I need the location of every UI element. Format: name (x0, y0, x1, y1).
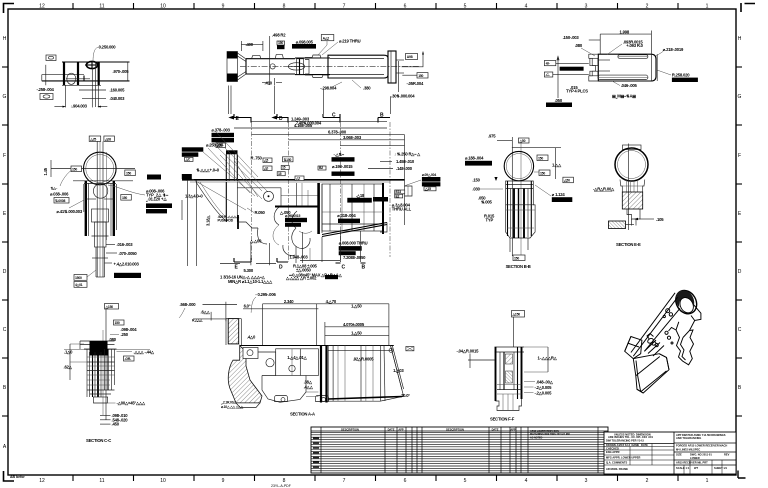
svg-text:C: C (3, 327, 7, 333)
svg-text:23YL-A-PDF: 23YL-A-PDF (271, 484, 291, 488)
svg-text:⌀.09△.004: ⌀.09△.004 (422, 173, 436, 177)
main outline (598, 54, 656, 81)
svg-text:⌀.098.0015: ⌀.098.0015 (285, 214, 300, 218)
svg-text:-△00△×45°△△△: -△00△×45°△△△ (117, 401, 147, 406)
svg-text:AB befor: AB befor (10, 475, 25, 479)
buffer thread hatched bar (228, 319, 239, 344)
ejection port detail (297, 59, 304, 75)
svg-text:△25: △25 (89, 137, 96, 141)
corner mark bottom-left (4, 471, 15, 481)
svg-text:.410: .410 (265, 81, 273, 86)
grid letters right (738, 36, 742, 391)
grid letters left (3, 36, 7, 450)
grip / trigger guard (676, 322, 694, 365)
bold pocket top edge (275, 206, 319, 208)
svg-text:SECTION F-F: SECTION F-F (490, 417, 515, 422)
svg-text:△08: △08 (104, 137, 111, 141)
svg-text:1-.△△△R△: 1-.△△△R△ (538, 356, 558, 361)
svg-text:2: 2 (646, 4, 649, 10)
svg-text:D: D (279, 265, 283, 271)
bottom dims (269, 74, 271, 85)
top cap (623, 145, 642, 150)
svg-text:9: 9 (222, 478, 225, 484)
svg-text:150: 150 (126, 171, 131, 175)
view: top-center receiver side elevation (227, 32, 428, 98)
.105 dim (640, 218, 654, 220)
ring (615, 148, 648, 181)
hatched block (622, 192, 642, 209)
svg-text:.030: .030 (472, 187, 480, 192)
svg-text:1.△△: 1.△△ (552, 163, 562, 168)
svg-text:⌀.008.000 THRU: ⌀.008.000 THRU (339, 240, 368, 245)
svg-text:10: 10 (160, 4, 166, 10)
svg-text:.1△0: .1△0 (64, 350, 73, 355)
horizontals (87, 356, 115, 358)
svg-text:1500: 1500 (75, 276, 82, 280)
svg-text:-.258-.004: -.258-.004 (37, 87, 55, 92)
corner mark bottom-right (738, 471, 746, 479)
top dim lines (263, 303, 389, 305)
small white boxes center (283, 157, 294, 162)
svg-text:.568-.000: .568-.000 (180, 302, 197, 307)
svg-text:- 0.295-.006: - 0.295-.006 (255, 292, 276, 297)
small latch bumps (647, 334, 654, 340)
gdt box (46, 55, 56, 61)
buffer ring outer (84, 152, 117, 185)
svg-text:APP: APP (510, 427, 516, 431)
leader top (60, 170, 72, 186)
svg-text:⇅150: ⇅150 (284, 158, 292, 162)
svg-text:.250: .250 (121, 332, 129, 337)
svg-text:150: 150 (72, 167, 77, 171)
svg-text:-.298.004: -.298.004 (320, 86, 337, 91)
vertical lines through (96, 141, 98, 277)
svg-text:1.△50: 1.△50 (351, 331, 362, 336)
svg-text:SIZE: SIZE (676, 452, 682, 456)
top dim .400 (241, 41, 263, 51)
svg-text:F: F (3, 153, 6, 159)
svg-text:△5: △5 (263, 159, 268, 163)
right dim (555, 148, 557, 179)
svg-text:△15: △15 (424, 187, 431, 191)
svg-text:AS NOTED: AS NOTED (530, 436, 543, 439)
svg-text:+.093 R.0: +.093 R.0 (626, 43, 643, 48)
view: SECTION B-B (mid-right) (465, 134, 573, 270)
view: isometric lower receiver (625, 287, 701, 393)
trigger guard bottom (262, 376, 306, 403)
inner lines (598, 59, 610, 61)
svg-text:⌀.198-.0015: ⌀.198-.0015 (332, 164, 353, 169)
view: SECTION F-F (bottom right-center) (457, 311, 558, 422)
right labels (121, 195, 132, 201)
left grip outline + hatch (228, 346, 262, 403)
svg-text:.△△△ -.44△: .△△△ -.44△ (133, 350, 154, 355)
svg-text:7: 7 (343, 4, 346, 10)
svg-text:.160.005: .160.005 (110, 88, 126, 93)
svg-text:C: C (342, 265, 346, 271)
svg-text:.105: .105 (656, 217, 664, 222)
rail bumps (252, 56, 261, 59)
lower steps (627, 209, 640, 219)
receiver deck steps (237, 222, 258, 228)
right block (317, 183, 320, 234)
centerline down (91, 62, 93, 108)
dim .160 (79, 89, 106, 91)
bottom dims (295, 246, 297, 263)
svg-text:-.05R.004: -.05R.004 (407, 81, 424, 86)
svg-text:SECTION A-A: SECTION A-A (290, 411, 315, 416)
svg-text:2: 2 (646, 478, 649, 484)
svg-text:0.250.000: 0.250.000 (99, 45, 117, 50)
svg-text:12: 12 (39, 4, 45, 10)
inner body boxes (92, 209, 109, 222)
main top rail (182, 179, 405, 181)
svg-text:⌀.10△ △△ △△△: ⌀.10△ △△ △△△ (221, 405, 243, 409)
svg-text:4: 4 (525, 478, 528, 484)
svg-text:5: 5 (464, 478, 467, 484)
right dim .970 (127, 62, 129, 81)
svg-text:150: 150 (540, 171, 545, 175)
section cut dashed verticals (251, 122, 253, 262)
svg-text:.148-.000: .148-.000 (396, 166, 413, 171)
svg-text:SECTION B-B: SECTION B-B (506, 264, 531, 269)
svg-text:4.△70: 4.△70 (326, 299, 337, 304)
centerline (240, 65, 420, 67)
main deck line (240, 345, 394, 347)
svg-text:CHECKED: CHECKED (606, 446, 619, 450)
svg-text:F: F (738, 153, 741, 159)
right small dim (656, 54, 658, 81)
mid dim lines (325, 326, 389, 328)
svg-text:5.300: 5.300 (244, 268, 254, 273)
svg-text:.975: .975 (488, 134, 496, 139)
bottom label (513, 255, 525, 261)
svg-text:A△2: A△2 (323, 36, 330, 40)
svg-text:⇅.△△△+.0⎯0: ⇅.△△△+.0⎯0 (196, 168, 220, 173)
connector ext lines from top view to cut markers (228, 86, 230, 115)
left dims (69, 344, 71, 380)
svg-text:.92△R.0005: .92△R.0005 (353, 357, 374, 362)
svg-text:1: 1 (706, 478, 709, 484)
svg-text:4.070±.0005: 4.070±.0005 (343, 322, 365, 327)
svg-text:△C: △C (185, 158, 191, 162)
mid step outline (305, 55, 328, 58)
svg-text:SECTION C-C: SECTION C-C (86, 438, 111, 443)
svg-text:-△R△R.00△: -△R△R.00△ (593, 187, 615, 192)
svg-text:AND TOLERANCING: AND TOLERANCING (676, 436, 701, 440)
svg-text:⌀.038-.006: ⌀.038-.006 (50, 192, 69, 197)
svg-text:DATE: DATE (388, 427, 395, 431)
thick bars (63, 62, 65, 85)
svg-text:FORGED AR15 LOWER RECEIVER MAC: FORGED AR15 LOWER RECEIVER MACH (676, 443, 727, 447)
svg-text:SCALE 1:1: SCALE 1:1 (676, 466, 690, 470)
svg-text:⌀.219 THRU: ⌀.219 THRU (339, 39, 361, 44)
svg-text:⌀.41⇅.000.003: ⌀.41⇅.000.003 (57, 209, 83, 214)
svg-text:10: 10 (160, 478, 166, 484)
svg-text:APP: APP (398, 427, 404, 431)
front cap / pivot lug (625, 337, 642, 359)
EOE datum box (182, 174, 192, 179)
svg-text:150: 150 (278, 41, 283, 45)
left dim line (45, 65, 47, 86)
svg-text:△.△00: △.△00 (249, 239, 262, 244)
dim 1.904 bottom (54, 106, 65, 108)
svg-text:LOWER: LOWER (690, 456, 700, 460)
grid ticks top (73, 3, 678, 9)
svg-text:B: B (380, 113, 384, 119)
svg-text:-.2△0.005: -.2△0.005 (535, 385, 553, 390)
svg-text:.070-.0050: .070-.0050 (119, 251, 138, 256)
svg-text:DATE: DATE (641, 443, 648, 447)
pivot pin cylinder (647, 337, 654, 344)
svg-text:3: 3 (585, 4, 588, 10)
buffer ring circle (504, 151, 533, 180)
svg-text:1.249-.003: 1.249-.003 (291, 116, 310, 121)
svg-text:4△01: 4△01 (75, 283, 83, 287)
svg-text:1.△4△.01△: 1.△4△.01△ (287, 355, 307, 360)
svg-text:DWG. NO 2011-01: DWG. NO 2011-01 (690, 452, 712, 456)
svg-text:.△18: .△18 (356, 193, 365, 198)
svg-text:A98: A98 (407, 55, 413, 59)
leader 0.250 (93, 47, 99, 62)
svg-text:12: 12 (39, 478, 45, 484)
grid ticks bottom (73, 475, 678, 481)
svg-text:M4 LINES MILSPEC: M4 LINES MILSPEC (676, 447, 700, 451)
svg-text:1.3△4.0⎯0: 1.3△4.0⎯0 (185, 194, 203, 199)
svg-text:B2: B2 (319, 166, 323, 170)
svg-text:DRAWN J.MCF 8.14: DRAWN J.MCF 8.14 (606, 443, 631, 447)
bottom slot (598, 75, 648, 79)
svg-text:⌀.378-.003: ⌀.378-.003 (212, 128, 231, 133)
svg-text:11: 11 (99, 4, 104, 10)
svg-text:C: C (738, 327, 742, 333)
svg-text:.016-.003: .016-.003 (117, 242, 134, 247)
svg-text:1.△50: 1.△50 (351, 303, 362, 308)
right body block (328, 55, 388, 78)
svg-text:4.168-.005: 4.168-.005 (294, 123, 313, 128)
shoulders (620, 180, 645, 193)
svg-text:150: 150 (538, 156, 543, 160)
wedge lines (238, 53, 247, 80)
tower below rail (225, 182, 227, 222)
buffer ring outer (672, 287, 701, 318)
body (495, 346, 525, 348)
svg-text:AR15 RECEIVER MIL PRT: AR15 RECEIVER MIL PRT (676, 460, 708, 464)
foot (609, 221, 626, 229)
svg-text:7.2088-.0050: 7.2088-.0050 (343, 255, 366, 260)
svg-text:C: C (332, 113, 336, 119)
svg-text:6.0°: 6.0° (244, 303, 251, 308)
svg-text:6: 6 (404, 4, 407, 10)
svg-text:15: 15 (278, 172, 282, 176)
view: SECTION E-E (right) (593, 144, 664, 248)
ext lines left (556, 63, 589, 65)
svg-text:3.18△: 3.18△ (206, 215, 211, 226)
svg-text:150: 150 (122, 196, 127, 200)
svg-text:△50: △50 (519, 139, 526, 143)
svg-text:SHEET 1/1: SHEET 1/1 (714, 466, 728, 470)
svg-text:1.△03: 1.△03 (393, 368, 404, 373)
small circle (270, 64, 275, 69)
5.300 bracket verticals (250, 243, 252, 265)
svg-text:1.998: 1.998 (620, 30, 630, 35)
svg-text:.040.003: .040.003 (110, 96, 126, 101)
takedown lug right (405, 186, 413, 196)
svg-text:10.0°: 10.0° (401, 393, 410, 398)
top flange (80, 340, 115, 342)
horizontal dim line (51, 168, 135, 170)
right dim (547, 347, 549, 372)
front strap curves (196, 182, 225, 220)
view: top-left pivot pin detail (37, 45, 130, 109)
svg-text:△.△△△ △R ±.002: △.△△△ △R ±.002 (285, 275, 317, 280)
top dims (600, 33, 651, 35)
magwell (633, 354, 669, 393)
svg-text:THRU ALL: THRU ALL (392, 206, 412, 211)
svg-text:TYP 4 PLCS: TYP 4 PLCS (566, 88, 588, 93)
takedown lug circle (93, 184, 107, 198)
svg-text:MIN△R ⌀1.1△10-1.1△△△: MIN△R ⌀1.1△10-1.1△△△ (228, 279, 273, 284)
grid ticks right (736, 67, 742, 416)
svg-text:⌀ 1.124: ⌀ 1.124 (552, 192, 566, 197)
svg-text:.400: .400 (246, 42, 254, 47)
trigger guard lobes (257, 228, 267, 244)
view: SECTION C-C (bottom-left) (64, 304, 155, 444)
deck detail lines (644, 340, 664, 356)
body outline (62, 61, 130, 63)
svg-text:4: 4 (525, 4, 528, 10)
bottom-left boxes (74, 275, 87, 281)
svg-text:↓ ⇅.250 R△⎯ △: ↓ ⇅.250 R△⎯ △ (394, 152, 421, 157)
svg-text:.4△△: .4△△ (304, 384, 314, 389)
svg-text:2.340: 2.340 (284, 299, 294, 304)
svg-text:⎵.2.1R.00△: ⎵.2.1R.00△ (220, 401, 237, 405)
right cap (388, 51, 396, 83)
columns (86, 349, 88, 397)
revision table (311, 427, 608, 473)
svg-text:150: 150 (115, 321, 120, 325)
svg-text:⌀.188-.004: ⌀.188-.004 (465, 156, 484, 161)
bore dark crescent (676, 290, 694, 307)
svg-text:8: 8 (283, 4, 286, 10)
pin circles (266, 359, 274, 367)
label 150 boxes (277, 41, 285, 45)
svg-text:NAME: NAME (632, 443, 640, 447)
slot ellipse (288, 63, 304, 70)
view: SECTION A-A (bottom-center) (220, 275, 414, 417)
svg-text:H: H (738, 36, 742, 42)
fcf boxes (560, 67, 584, 71)
svg-text:R.050: R.050 (255, 210, 266, 215)
svg-text:DATE: DATE (492, 427, 499, 431)
svg-text:5: 5 (464, 4, 467, 10)
takedown pin detail (666, 309, 670, 313)
svg-text:.450: .450 (112, 422, 120, 427)
fire-control pocket (246, 352, 276, 376)
svg-text:D: D (3, 269, 7, 275)
svg-text:+.4△2.010.003: +.4△2.010.003 (114, 262, 140, 267)
ellipse boss (62, 84, 101, 86)
svg-text:G: G (3, 94, 7, 100)
view: main side elevation (center) (147, 116, 440, 277)
left step (589, 54, 599, 81)
top dim lines (252, 120, 388, 122)
svg-text:REV: REV (724, 452, 730, 456)
svg-text:↓.904.003: ↓.904.003 (70, 104, 87, 109)
deck lines (84, 183, 116, 185)
svg-text:△50: △50 (563, 179, 570, 183)
svg-text:-GR-: -GR- (125, 357, 132, 361)
svg-text:1: 1 (706, 4, 709, 10)
svg-text:.050: .050 (555, 98, 563, 103)
target symbol (86, 61, 97, 68)
svg-text:D: D (738, 269, 742, 275)
svg-text:-B-: -B- (546, 62, 550, 66)
grid numbers top (39, 4, 708, 10)
svg-text:.4△0: .4△0 (247, 335, 256, 340)
svg-text:150: 150 (418, 74, 423, 78)
body sides below ring (85, 181, 87, 236)
svg-text:△2: △2 (295, 177, 300, 181)
hammer pin circle (264, 191, 274, 201)
svg-text:Q.A. COMMENTS: Q.A. COMMENTS (606, 460, 627, 464)
corner mark top-right (741, 3, 755, 12)
svg-text:-.30⇅.000.004: -.30⇅.000.004 (390, 94, 415, 99)
svg-text:150: 150 (514, 256, 519, 260)
svg-text:△150: △150 (512, 313, 521, 317)
svg-text:1.948-.003: 1.948-.003 (290, 255, 309, 260)
svg-text:⇅△⎯: ⇅△⎯ (51, 187, 58, 191)
svg-text:H: H (3, 36, 7, 42)
svg-text:-.04△R.0015: -.04△R.0015 (457, 349, 480, 354)
svg-text:E2: E2 (396, 194, 400, 198)
left dims (187, 180, 189, 266)
view: top-right bottom view of receiver (544, 30, 698, 107)
svg-text:15: 15 (282, 166, 286, 170)
svg-text:.046-.005: .046-.005 (621, 83, 638, 88)
svg-text:⇅.0008: ⇅.0008 (55, 199, 65, 203)
dim .040 (82, 98, 106, 100)
svg-text:.080: .080 (575, 43, 583, 48)
svg-text:.048-.00△: .048-.00△ (536, 380, 554, 385)
svg-text:-.△⇅⎯: -.△⇅⎯ (334, 152, 345, 157)
svg-text:.380: .380 (363, 86, 371, 91)
svg-text:DIM TOLERANCING PER Y14.5: DIM TOLERANCING PER Y14.5 (606, 438, 645, 442)
leader diagonals (192, 143, 268, 210)
svg-text:.970-.005: .970-.005 (113, 69, 130, 74)
svg-text:B: B (362, 265, 366, 271)
svg-text:9: 9 (222, 4, 225, 10)
svg-text:TYP: TYP (486, 218, 494, 223)
body (506, 181, 535, 238)
svg-text:R.258.020: R.258.020 (672, 73, 690, 78)
top label boxes (89, 136, 101, 141)
dim .498 R2 leader (269, 36, 271, 74)
top rail edge (631, 293, 675, 353)
svg-text:⇅.005: ⇅.005 (481, 200, 493, 205)
svg-text:11: 11 (99, 478, 104, 484)
svg-text:-C-: -C- (546, 73, 550, 77)
pocket verticals (296, 183, 298, 206)
svg-text:6: 6 (404, 478, 407, 484)
right ext dim (397, 61, 399, 92)
buffer ring inner (86, 155, 114, 183)
svg-text:SECTION E-E: SECTION E-E (616, 242, 641, 247)
svg-text:.6△△: .6△△ (201, 309, 211, 314)
svg-text:⌀.318-.004: ⌀.318-.004 (337, 213, 356, 218)
trigger slot bars (320, 346, 322, 403)
flag box with leader (321, 35, 334, 41)
